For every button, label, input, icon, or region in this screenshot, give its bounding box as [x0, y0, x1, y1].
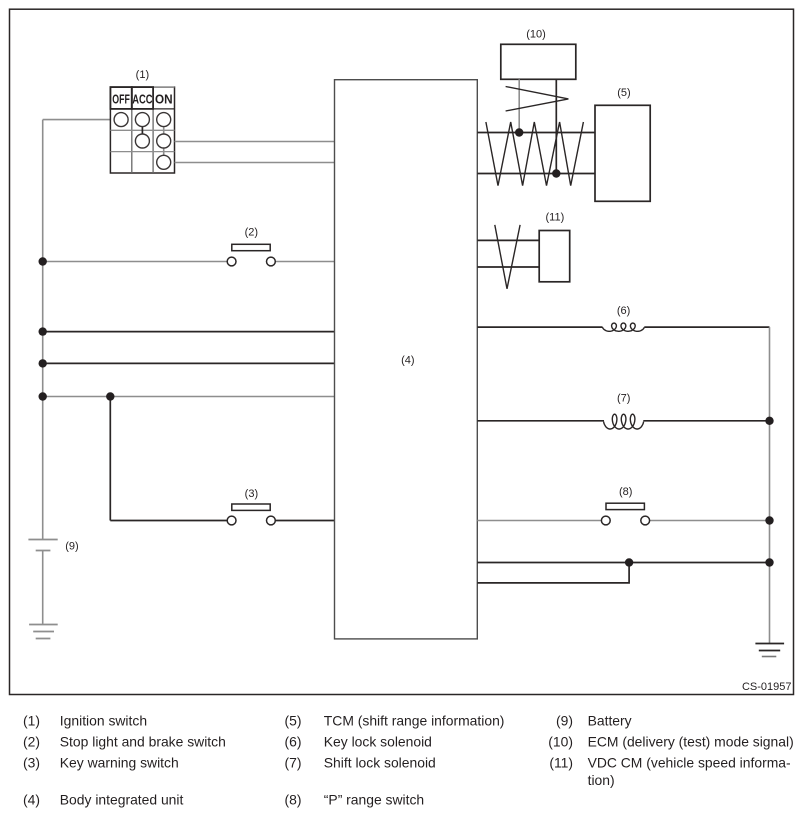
svg-text:(5): (5): [617, 87, 630, 99]
svg-text:(3): (3): [245, 488, 258, 500]
svg-text:ACC: ACC: [132, 92, 153, 107]
svg-text:TCM (shift range information): TCM (shift range information): [324, 713, 505, 729]
svg-text:tion): tion): [588, 772, 615, 788]
svg-text:ECM (delivery (test) mode sign: ECM (delivery (test) mode signal): [588, 734, 794, 750]
svg-text:(2): (2): [23, 734, 40, 750]
svg-text:(5): (5): [285, 713, 302, 729]
svg-text:(9): (9): [556, 713, 573, 729]
svg-text:(11): (11): [549, 755, 573, 771]
svg-text:(9): (9): [65, 541, 78, 553]
svg-text:(6): (6): [617, 305, 630, 317]
svg-text:Ignition switch: Ignition switch: [60, 713, 147, 729]
svg-text:(8): (8): [285, 791, 302, 807]
svg-text:(6): (6): [285, 734, 302, 750]
svg-text:(7): (7): [617, 393, 630, 405]
svg-text:(10): (10): [548, 734, 573, 750]
svg-text:Stop light and brake switch: Stop light and brake switch: [60, 734, 226, 750]
svg-text:(4): (4): [23, 791, 40, 807]
svg-text:(4): (4): [401, 355, 414, 367]
svg-text:Body integrated unit: Body integrated unit: [60, 791, 184, 807]
svg-text:(11): (11): [546, 212, 565, 224]
svg-text:(1): (1): [23, 713, 40, 729]
svg-text:(3): (3): [23, 755, 40, 771]
svg-text:ON: ON: [155, 92, 173, 107]
svg-text:Battery: Battery: [588, 713, 632, 729]
svg-text:(8): (8): [619, 486, 632, 498]
svg-text:(10): (10): [526, 29, 546, 41]
svg-text:OFF: OFF: [112, 92, 130, 107]
svg-text:CS-01957: CS-01957: [742, 681, 792, 693]
svg-text:“P” range switch: “P” range switch: [324, 791, 424, 807]
svg-text:(1): (1): [136, 69, 149, 81]
svg-text:VDC CM (vehicle speed informa-: VDC CM (vehicle speed informa-: [588, 755, 791, 771]
svg-text:Key lock solenoid: Key lock solenoid: [324, 734, 432, 750]
svg-text:Shift lock solenoid: Shift lock solenoid: [324, 755, 436, 771]
svg-text:(7): (7): [285, 755, 302, 771]
svg-text:Key warning switch: Key warning switch: [60, 755, 179, 771]
svg-text:(2): (2): [245, 227, 258, 239]
